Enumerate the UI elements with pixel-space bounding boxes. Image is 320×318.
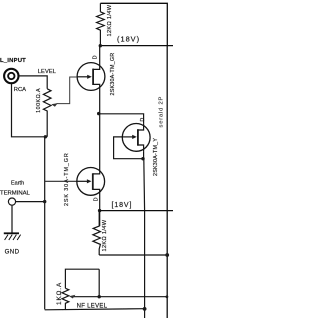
- wire left ground bus vertical: [44, 137, 46, 310]
- potentiometer VR2 1KΩ.A NF level: [62, 288, 75, 309]
- wire RCA pin to level pot top: [18, 76, 47, 89]
- node (18V) label top: [117, 34, 140, 43]
- label text GND: [5, 249, 20, 256]
- connector earth terminal: [8, 198, 15, 205]
- value label Q1 2SK30A-TM GR: [110, 53, 116, 96]
- svg-text:D: D: [93, 55, 99, 59]
- svg-text:L_INPUT: L_INPUT: [0, 58, 26, 64]
- junction dot level pot bottom / ground bus: [44, 135, 47, 138]
- ground: [4, 233, 21, 240]
- junction dot Q2 gate-source tie: [141, 157, 144, 160]
- svg-text:12KΩ 1/4W: 12KΩ 1/4W: [107, 4, 113, 36]
- wire +18V horizontal rail: [100, 45, 173, 47]
- wire Q2 source down to bottom edge: [144, 151, 145, 318]
- wire VR2 wiper to feedback node: [74, 269, 99, 297]
- label text LEVEL: [38, 69, 56, 75]
- svg-text:2SK30A-TM_GR: 2SK30A-TM_GR: [110, 53, 116, 96]
- resistor R2 12KΩ 1/4W: [93, 211, 101, 255]
- label text serald 2P: [159, 96, 165, 128]
- wire earth terminal down to ground: [11, 205, 13, 232]
- svg-text:[18V]: [18V]: [112, 202, 133, 209]
- wire R2 bottom to NF pot top: [65, 269, 99, 288]
- svg-text:serald 2P: serald 2P: [159, 96, 165, 128]
- wire earth terminal to ground bus: [16, 201, 45, 203]
- svg-text:NF LEVEL: NF LEVEL: [77, 303, 108, 309]
- junction dot Q3 drain / output line: [98, 209, 101, 212]
- transistor Q1 2SK30A-TM GR: [77, 46, 105, 91]
- value label VR2 1KΩ.A: [56, 282, 63, 305]
- value label VR1 100KΩ.A: [36, 88, 42, 113]
- wire output line to right edge: [100, 210, 173, 212]
- potentiometer VR1 100KΩ.A level: [43, 89, 57, 137]
- junction dot feedback rail right: [165, 253, 169, 257]
- wire RCA shield down and right to ground bus: [12, 84, 48, 137]
- junction dot earth terminal / ground bus: [43, 200, 46, 203]
- junction dot R1/Q1 drain: [99, 44, 102, 47]
- wire R2 bottom to right feedback rail: [99, 254, 167, 256]
- svg-text:1KΩ.A: 1KΩ.A: [56, 282, 63, 305]
- svg-text:RCA: RCA: [14, 87, 26, 93]
- wire VR1 wiper to Q1 gate: [57, 77, 78, 104]
- transistor Q2 2SK30A-TM Y: [122, 123, 150, 151]
- node [18V] label mid: [112, 202, 133, 209]
- svg-text:2SK 30A-TM_GR: 2SK 30A-TM_GR: [64, 152, 70, 206]
- value label Q3 2SK 30A-TM GR: [64, 152, 70, 206]
- svg-text:2SK30A-TM_Y: 2SK30A-TM_Y: [153, 138, 159, 176]
- label text RCA: [14, 87, 26, 93]
- label text TERMINAL: [0, 191, 31, 197]
- svg-text:Earth: Earth: [11, 181, 24, 187]
- wire right border vertical: [166, 46, 168, 318]
- pin label D of Q2: [140, 118, 146, 122]
- junction dot VR2 wiper node: [98, 295, 101, 298]
- wire bottom ground rail: [45, 309, 145, 310]
- wire Q1 source down to Q3: [99, 91, 101, 173]
- wire Q1 source to Q2 drain: [99, 114, 144, 124]
- wire Q3 gate from ground bus: [45, 180, 77, 182]
- junction dot Q1 source / Q2 drain: [97, 112, 100, 115]
- value label Q2 2SK30A-TM Y: [153, 138, 159, 176]
- wire top rail from R1 top to right corner: [100, 3, 167, 45]
- value label R2 12KΩ 1/4W: [102, 219, 108, 251]
- transistor Q3 2SK30A-TM GR: [77, 168, 105, 197]
- svg-text:100KΩ.A: 100KΩ.A: [36, 88, 42, 113]
- label text Earth: [11, 181, 24, 187]
- svg-text:(18V): (18V): [117, 34, 140, 43]
- svg-text:12KΩ 1/4W: 12KΩ 1/4W: [102, 219, 108, 251]
- label text L INPUT: [0, 58, 26, 64]
- label text NF LEVEL: [77, 303, 108, 309]
- connector RCA jack: [4, 69, 18, 83]
- resistor R1 12KΩ 1/4W: [97, 3, 105, 46]
- pin label D of Q1: [93, 55, 99, 59]
- wire Q3 drain down: [99, 196, 101, 226]
- svg-text:D: D: [94, 197, 100, 201]
- value label R1 12KΩ 1/4W: [107, 4, 113, 36]
- wire Q2 gate to source loop: [114, 137, 143, 159]
- wire wiper node to right rail: [99, 296, 167, 298]
- junction dot wiper line / right rail: [166, 295, 169, 298]
- svg-text:TERMINAL: TERMINAL: [0, 191, 31, 197]
- svg-text:LEVEL: LEVEL: [38, 69, 56, 75]
- junction dot bottom rail / Q2 source line: [143, 307, 147, 311]
- svg-text:D: D: [140, 118, 146, 122]
- svg-text:GND: GND: [5, 249, 20, 256]
- pin label D of Q3: [94, 197, 100, 201]
